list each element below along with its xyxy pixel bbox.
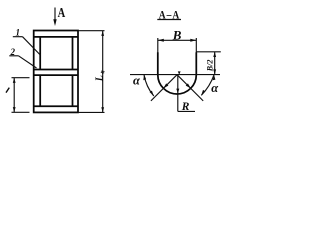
svg-text:A: A: [58, 5, 66, 21]
svg-text:1: 1: [16, 28, 21, 38]
svg-text:B/2: B/2: [205, 60, 214, 73]
svg-text:*: *: [100, 68, 105, 78]
svg-text:R: R: [181, 101, 190, 113]
svg-text:B: B: [172, 28, 182, 43]
svg-text:α: α: [211, 81, 219, 95]
svg-text:α: α: [133, 73, 141, 87]
